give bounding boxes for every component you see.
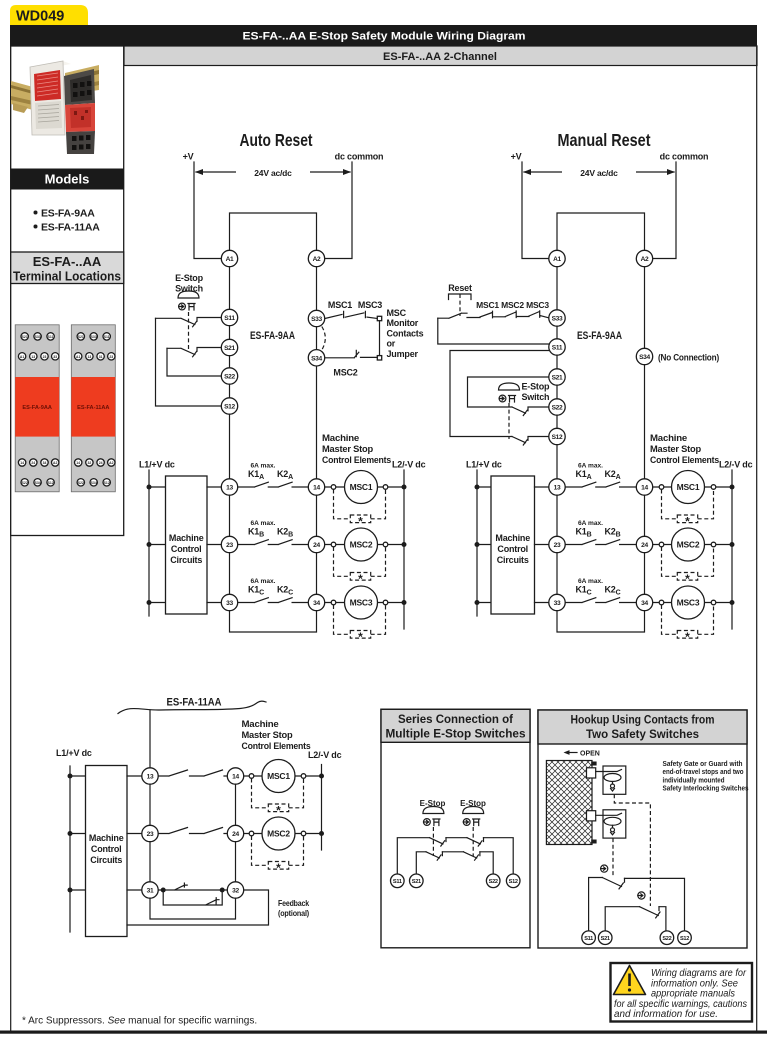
- svg-text:S22: S22: [662, 936, 671, 942]
- feedback return loop to control box: [127, 890, 269, 925]
- svg-text:ES-FA-9AA: ES-FA-9AA: [41, 208, 95, 220]
- svg-text:31: 31: [99, 355, 103, 359]
- svg-text:32: 32: [88, 461, 92, 465]
- terminal S33 (manual): [549, 310, 565, 326]
- rail stubs to control box (manual): [477, 487, 491, 603]
- svg-text:Safety Interlocking Switches: Safety Interlocking Switches: [663, 784, 749, 793]
- svg-text:ES-FA-11AA: ES-FA-11AA: [77, 405, 109, 411]
- svg-text:S21: S21: [412, 879, 421, 885]
- arc suppressor loop MSC2 (auto): [334, 547, 386, 586]
- rotation symbol contact 1: [601, 865, 608, 872]
- svg-text:+V: +V: [183, 152, 194, 162]
- wire left module column A1..33 and bottom to 34: [230, 259, 317, 633]
- switch1 upper contact blade (series): [430, 838, 446, 846]
- MSC1 load circle (auto): [345, 471, 378, 504]
- svg-text:S33: S33: [35, 335, 41, 339]
- terminal 32 (11AA): [227, 882, 243, 898]
- label Feedback (optional): [278, 898, 309, 918]
- gray 2-channel bar: [124, 46, 757, 66]
- module 9AA bottom terminals row S22 S34 S12: [21, 479, 54, 486]
- wires box to terminals 13 23 31 (11AA): [127, 776, 142, 890]
- svg-text:24: 24: [232, 831, 239, 838]
- svg-text:Manual Reset: Manual Reset: [558, 130, 651, 150]
- svg-text:S11: S11: [104, 335, 110, 339]
- svg-text:A1: A1: [76, 355, 80, 359]
- svg-text:ES-FA-9AA: ES-FA-9AA: [22, 405, 52, 411]
- svg-text:*: *: [276, 803, 281, 817]
- svg-text:14: 14: [641, 485, 648, 492]
- svg-text:S34: S34: [639, 354, 650, 361]
- dimension arrow 24V ac/dc: [195, 166, 351, 178]
- svg-text:Master Stop: Master Stop: [650, 444, 702, 454]
- terminal 13 (11AA): [142, 768, 158, 784]
- warning box frame: [611, 963, 753, 1022]
- svg-text:A2: A2: [641, 256, 649, 263]
- wire S21 inner loop to S22 contact: [468, 377, 549, 407]
- label MSC Monitor Contacts or Jumper: [387, 308, 424, 359]
- svg-text:*: *: [358, 630, 363, 644]
- terminal 31 (11AA): [142, 882, 158, 898]
- sidebar box: [11, 46, 124, 536]
- svg-text:32: 32: [232, 888, 239, 895]
- E-stop contact on S22 row (manual): [512, 407, 548, 416]
- E-stop switch head 1 (series): [423, 807, 444, 826]
- contacts between 23 and 24 (11AA): [158, 828, 227, 834]
- mechanical link dashed: [188, 312, 190, 352]
- svg-text:S11: S11: [552, 345, 563, 352]
- svg-text:S21: S21: [224, 345, 235, 352]
- wires box to terminals (manual): [535, 487, 549, 603]
- svg-text:A2: A2: [53, 461, 57, 465]
- svg-text:S34: S34: [311, 355, 322, 362]
- WD049 yellow tab: [10, 5, 88, 25]
- svg-text:E-Stop: E-Stop: [175, 273, 203, 283]
- contact K1C K2C (auto row 3): [238, 578, 309, 603]
- MSC3 load circle (auto): [345, 586, 378, 619]
- terminal 13: [221, 479, 237, 495]
- svg-text:OPEN: OPEN: [580, 750, 600, 757]
- terminal 14: [308, 479, 324, 495]
- wire 14 to rail with MSC1 (auto): [325, 486, 404, 488]
- wire 24 to rail with MSC2 (manual): [653, 544, 732, 546]
- svg-text:Control: Control: [91, 844, 122, 854]
- svg-text:Feedback: Feedback: [278, 898, 309, 908]
- terminal 33: [221, 594, 237, 610]
- svg-text:Models: Models: [45, 172, 90, 187]
- svg-text:L2/-V dc: L2/-V dc: [308, 750, 342, 760]
- svg-text:ES-FA-11AA: ES-FA-11AA: [167, 697, 222, 709]
- safety gate hatch mesh: [546, 761, 592, 845]
- svg-text:Control Elements: Control Elements: [322, 455, 391, 465]
- svg-text:Control Elements: Control Elements: [242, 741, 311, 751]
- reset actuator bracket: [449, 294, 472, 300]
- contact 1 blade (hookup): [602, 878, 624, 889]
- terminal S21 (hookup): [598, 931, 612, 945]
- terminal 14 (11AA): [227, 768, 243, 784]
- svg-text:Control: Control: [171, 544, 202, 554]
- wires box to terminals 13 23 33 (auto): [207, 487, 221, 603]
- svg-text:Monitor: Monitor: [387, 318, 419, 328]
- connector circles MSC1 (11AA): [249, 774, 306, 779]
- svg-text:Multiple E-Stop Switches: Multiple E-Stop Switches: [386, 729, 526, 741]
- wire +V to A1: [194, 162, 221, 259]
- connector circles MSC2 (auto): [331, 542, 388, 547]
- MSC2 load circle (manual): [672, 528, 705, 561]
- svg-text:ES-FA-..AA 2-Channel: ES-FA-..AA 2-Channel: [383, 51, 497, 63]
- product photo: DIN rail left: [11, 81, 33, 113]
- model list bullet ES-FA-11AA: [34, 222, 101, 234]
- svg-text:33: 33: [226, 600, 233, 607]
- svg-text:ES-FA-9AA: ES-FA-9AA: [577, 330, 622, 342]
- wire bridge A1-A2: [230, 213, 317, 252]
- svg-text:MSC3: MSC3: [358, 300, 382, 310]
- svg-text:Series Connection of: Series Connection of: [398, 714, 513, 726]
- contact 2 blade (hookup): [640, 907, 661, 918]
- svg-text:or: or: [387, 339, 396, 349]
- svg-text:+V: +V: [511, 152, 522, 162]
- left rail L1 (manual): [476, 470, 478, 616]
- left rail L1 (auto): [148, 470, 150, 616]
- svg-text:Machine: Machine: [495, 533, 530, 543]
- label Machine Master Stop Control Elements (11AA): [242, 719, 311, 751]
- svg-text:13: 13: [147, 774, 154, 781]
- wire contact1 to S12 loop: [156, 318, 222, 406]
- svg-text:24: 24: [31, 461, 35, 465]
- gate end stop top: [591, 762, 596, 766]
- terminal S11 (series): [391, 874, 405, 888]
- wire 14 to rail with MSC1 (manual): [653, 486, 732, 488]
- terminal S22 (manual): [549, 399, 565, 415]
- product photo: module body: [30, 61, 71, 135]
- svg-text:Auto Reset: Auto Reset: [240, 130, 313, 150]
- wire dc common to A2 (manual): [653, 162, 676, 259]
- svg-text:S22: S22: [552, 405, 563, 412]
- terminal 24 (11AA): [227, 825, 243, 841]
- feedback contact between 31 and 32: [158, 883, 227, 905]
- label Machine Master Stop Control Elements (manual): [650, 433, 719, 465]
- module 11AA bottom terminals row S22 S34 S12: [77, 479, 110, 486]
- svg-text:Jumper: Jumper: [387, 349, 419, 359]
- svg-text:S34: S34: [91, 481, 97, 485]
- svg-text:Switch: Switch: [175, 284, 203, 294]
- dashed link switch2 to contact 1: [612, 838, 614, 877]
- svg-text:S11: S11: [224, 315, 235, 322]
- wire module columns (11AA): [150, 710, 236, 919]
- svg-text:S22: S22: [224, 374, 235, 381]
- svg-text:Control: Control: [497, 544, 528, 554]
- svg-text:24V ac/dc: 24V ac/dc: [254, 168, 292, 178]
- terminal-location module ES-FA-11AA: [71, 325, 115, 492]
- svg-text:24: 24: [313, 542, 320, 549]
- svg-text:24: 24: [641, 542, 648, 549]
- svg-text:23: 23: [226, 542, 233, 549]
- model list bullet ES-FA-9AA: [34, 208, 96, 220]
- svg-text:Master Stop: Master Stop: [242, 730, 294, 740]
- svg-text:S34: S34: [35, 481, 41, 485]
- svg-text:S12: S12: [224, 404, 235, 411]
- terminal S22: [221, 368, 237, 384]
- svg-text:(No Connection): (No Connection): [658, 353, 719, 363]
- svg-text:13: 13: [226, 485, 233, 492]
- svg-text:13: 13: [31, 355, 35, 359]
- wire S11 outer loop to S12 contact: [450, 351, 548, 437]
- svg-text:ES-FA-..AA: ES-FA-..AA: [33, 254, 102, 269]
- E-stop contact 1 (S11): [156, 318, 222, 327]
- wire 24 to rail with MSC2 (11AA): [244, 833, 322, 835]
- svg-text:Machine: Machine: [650, 433, 687, 443]
- svg-text:S12: S12: [552, 434, 563, 441]
- E-stop contact on S12 row (manual): [512, 437, 548, 446]
- svg-text:MSC: MSC: [387, 308, 407, 318]
- svg-text:Two Safety Switches: Two Safety Switches: [586, 727, 699, 741]
- MSC2 contact to S34: [325, 350, 377, 357]
- wire chain to S11: [438, 318, 549, 344]
- arc suppressor loop MSC3 (manual): [662, 605, 714, 644]
- interlock switch 2: [587, 810, 626, 838]
- arc suppressor loop MSC2 (11AA): [252, 836, 304, 875]
- wire 14 to rail with MSC1 (11AA): [244, 775, 322, 777]
- svg-text:A2: A2: [313, 256, 321, 263]
- svg-text:*: *: [685, 630, 690, 644]
- module 9AA top terminals row S21 S33 S11: [21, 333, 54, 340]
- svg-text:24: 24: [99, 461, 103, 465]
- svg-text:MSC2: MSC2: [333, 368, 357, 378]
- switch1 lower contact blade (series): [426, 852, 442, 860]
- dimension arrow 24V ac/dc (manual): [523, 166, 675, 178]
- warning triangle: [614, 966, 646, 995]
- E-stop switch head (manual): [499, 383, 520, 402]
- E-stop switch head: [178, 291, 199, 310]
- terminal S12 (series): [506, 874, 520, 888]
- svg-text:S12: S12: [104, 481, 110, 485]
- svg-text:S11: S11: [393, 879, 402, 885]
- svg-text:14: 14: [313, 485, 320, 492]
- E-Stop switch labels (manual): [522, 382, 550, 403]
- svg-text:24V ac/dc: 24V ac/dc: [580, 168, 618, 178]
- svg-text:S12: S12: [680, 936, 689, 942]
- svg-text:33: 33: [53, 355, 57, 359]
- interlock switch 1: [587, 766, 626, 794]
- svg-text:S12: S12: [48, 481, 54, 485]
- svg-text:*: *: [685, 572, 690, 586]
- MSC monitor right terminal squares and link: [377, 316, 381, 360]
- svg-text:(optional): (optional): [278, 908, 309, 918]
- svg-text:23: 23: [43, 355, 47, 359]
- dashed link S33-S34: [322, 327, 326, 351]
- wire 34 to rail with MSC3 (manual): [653, 602, 732, 604]
- rotation symbol contact 2: [638, 892, 645, 899]
- MSC3 load circle (manual): [672, 586, 705, 619]
- contacts between 13 and 14 (11AA): [158, 770, 227, 776]
- svg-text:MSC3: MSC3: [677, 598, 700, 608]
- wire +V to A1 (manual): [522, 162, 549, 259]
- terminal S12: [221, 398, 237, 414]
- svg-text:* Arc Suppressors. See manual: * Arc Suppressors. See manual for specif…: [22, 1016, 257, 1027]
- switch2 lower contact blade (series): [463, 852, 480, 860]
- svg-text:34: 34: [313, 600, 320, 607]
- svg-text:S21: S21: [552, 375, 563, 382]
- contact K1C K2C (manual row 3): [565, 578, 636, 603]
- svg-text:14: 14: [232, 774, 239, 781]
- connector circles MSC1 (auto): [331, 485, 388, 490]
- svg-text:ES-FA-9AA: ES-FA-9AA: [250, 330, 295, 342]
- terminal S12 (manual): [549, 428, 565, 444]
- terminal 23: [221, 536, 237, 552]
- svg-text:14: 14: [20, 461, 24, 465]
- svg-text:S22: S22: [78, 481, 84, 485]
- left rail L1 (11AA): [69, 766, 71, 932]
- svg-text:Circuits: Circuits: [497, 555, 529, 565]
- terminal S22 (hookup): [660, 931, 674, 945]
- svg-text:23: 23: [109, 355, 113, 359]
- terminal 34: [308, 594, 324, 610]
- terminal S11 (hookup): [582, 931, 596, 945]
- gate end stop bottom: [591, 840, 596, 844]
- wire module columns (manual): [557, 259, 645, 633]
- terminal A2 (manual): [636, 250, 652, 266]
- mechanical link dashed (manual): [508, 403, 510, 439]
- wire S21 through contact2 to S22 (hookup): [605, 907, 666, 931]
- black title bar: [10, 25, 757, 46]
- svg-text:L1/+V dc: L1/+V dc: [56, 748, 92, 758]
- connector circles MSC2 (11AA): [249, 831, 306, 836]
- svg-text:A1: A1: [20, 355, 24, 359]
- svg-text:*: *: [276, 861, 281, 875]
- svg-text:Reset: Reset: [448, 283, 472, 293]
- product photo: DIN rail behind right: [65, 65, 99, 95]
- svg-text:L2/-V dc: L2/-V dc: [392, 460, 426, 470]
- svg-text:MSC1: MSC1: [267, 771, 290, 781]
- svg-text:*: *: [358, 572, 363, 586]
- svg-text:13: 13: [88, 355, 92, 359]
- svg-text:E-Stop: E-Stop: [522, 382, 550, 392]
- hookup box frame: [538, 710, 747, 948]
- svg-text:S22: S22: [489, 879, 498, 885]
- svg-text:14: 14: [76, 461, 80, 465]
- svg-text:S11: S11: [48, 335, 54, 339]
- right rail L2 (11AA): [321, 765, 323, 851]
- module 11AA top terminals row S21 S33 S11: [77, 333, 110, 340]
- svg-text:34: 34: [641, 600, 648, 607]
- svg-text:MSC1: MSC1: [350, 482, 373, 492]
- contact K1B K2B (manual row 2): [565, 520, 636, 545]
- junction dots left rail (manual): [475, 485, 480, 606]
- terminal S21 (series): [410, 874, 424, 888]
- Models header bar: [11, 169, 124, 190]
- svg-text:S21: S21: [78, 335, 84, 339]
- module 11AA terminals row A1 13 31 23: [75, 353, 116, 360]
- rail stubs to control box (auto): [149, 487, 166, 603]
- reset dashed link: [459, 294, 461, 316]
- svg-text:MSC3: MSC3: [350, 598, 373, 608]
- svg-text:A2: A2: [109, 461, 113, 465]
- terminal A2: [308, 250, 324, 266]
- right rail L2 (manual): [731, 470, 733, 629]
- terminal S21 (manual): [549, 369, 565, 385]
- svg-text:MSC1: MSC1: [328, 300, 352, 310]
- terminal S11: [221, 309, 237, 325]
- svg-text:Machine: Machine: [322, 433, 359, 443]
- arc suppressor loop MSC2 (manual): [662, 547, 714, 586]
- arc suppressor loop MSC1 (11AA): [252, 779, 304, 818]
- wire dc common to A2: [325, 162, 352, 259]
- label Safety Gate or Guard: [663, 759, 749, 793]
- connector circles MSC3 (manual): [659, 600, 716, 605]
- dashed link switch1 to contact 2: [614, 794, 650, 906]
- svg-text:Circuits: Circuits: [90, 855, 122, 865]
- svg-text:S33: S33: [552, 316, 563, 323]
- machine control circuits box (auto): [166, 476, 208, 614]
- E-stop switch head 2 (series): [463, 807, 484, 826]
- label Machine Master Stop Control Elements (auto): [322, 433, 391, 465]
- module 9AA terminals row 14 24 34 A2: [18, 459, 59, 466]
- terminal 23 (manual): [549, 536, 565, 552]
- terminal S34: [308, 350, 324, 366]
- connector circles MSC2 (manual): [659, 542, 716, 547]
- rail stubs to control box (11AA): [70, 776, 86, 890]
- terminal S22 (series): [486, 874, 500, 888]
- terminal S12 (hookup): [678, 931, 692, 945]
- MSC2 load circle (11AA): [262, 817, 295, 850]
- terminal 24 (manual): [636, 536, 652, 552]
- svg-text:MSC1 MSC2 MSC3: MSC1 MSC2 MSC3: [476, 300, 549, 310]
- module 9AA terminals row A1 13 23 33: [18, 353, 59, 360]
- svg-text:Hookup Using Contacts from: Hookup Using Contacts from: [571, 713, 715, 727]
- svg-text:MSC2: MSC2: [267, 829, 290, 839]
- svg-text:Terminal Locations: Terminal Locations: [13, 270, 121, 284]
- svg-text:A1: A1: [226, 256, 234, 263]
- svg-text:L1/+V dc: L1/+V dc: [466, 460, 502, 470]
- svg-text:Machine: Machine: [169, 533, 204, 543]
- terminal 24: [308, 536, 324, 552]
- reset and MSC monitor contact chain to S33: [438, 311, 549, 318]
- right rail L2 (auto): [403, 470, 405, 629]
- MSC monitor chain from S33: [325, 311, 377, 318]
- terminal A1 (manual): [549, 250, 565, 266]
- wire S11 to upper contacts to S12 (series): [397, 838, 513, 874]
- svg-text:Machine: Machine: [89, 833, 124, 843]
- product photo: terminal blocks and red face: [64, 69, 95, 154]
- break squiggle wire: [118, 701, 266, 713]
- svg-text:33: 33: [554, 600, 561, 607]
- terminal 14 (manual): [636, 479, 652, 495]
- warning text: [614, 968, 747, 1020]
- wire 24 to rail with MSC2 (auto): [325, 544, 404, 546]
- module 11AA terminals row 14 32 24 A2: [75, 459, 116, 466]
- svg-text:S21: S21: [601, 936, 610, 942]
- svg-text:L1/+V dc: L1/+V dc: [139, 460, 175, 470]
- wire S11 through contact1 to S12 (hookup): [589, 878, 685, 932]
- terminal 34 (manual): [636, 594, 652, 610]
- svg-text:S21: S21: [22, 335, 28, 339]
- mechanical link dashed 1 (series): [432, 827, 434, 856]
- svg-text:S33: S33: [91, 335, 97, 339]
- terminal S33: [308, 310, 324, 326]
- OPEN arrow label: [564, 750, 600, 757]
- svg-text:Contacts: Contacts: [387, 328, 424, 338]
- wire contact2 to S22 loop: [167, 348, 221, 376]
- junction dots right rail (11AA): [319, 774, 324, 837]
- arc suppressor loop MSC3 (auto): [334, 605, 386, 644]
- svg-text:MSC2: MSC2: [677, 540, 700, 550]
- wire bridge A1-A2 (manual): [557, 213, 645, 252]
- svg-text:23: 23: [147, 831, 154, 838]
- terminal-location module ES-FA-9AA: [15, 325, 59, 492]
- mechanical link dashed 2 (series): [472, 827, 474, 856]
- series box frame: [381, 709, 530, 948]
- connector circles MSC1 (manual): [659, 485, 716, 490]
- svg-text:Circuits: Circuits: [170, 555, 202, 565]
